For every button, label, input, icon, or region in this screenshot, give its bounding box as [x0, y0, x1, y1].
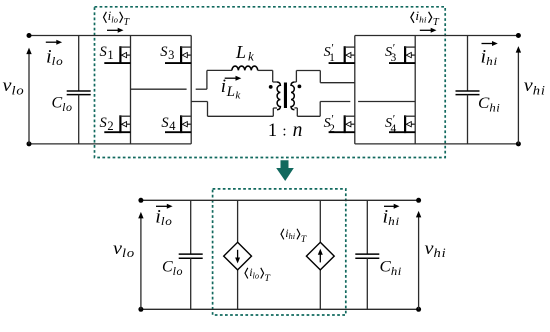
svg-text::: :	[282, 123, 286, 139]
label <ilo>T	[104, 9, 131, 28]
voltage arrow vhi	[516, 46, 521, 144]
transformer secondary polarity dot	[298, 85, 302, 89]
transformer core	[285, 83, 287, 109]
node dot bottom-left	[27, 141, 32, 146]
wire bottom rail averaged model	[141, 308, 419, 310]
wire leg S1-S2	[130, 36, 132, 144]
current arrow ilo	[46, 41, 58, 43]
dependent current source <ihi>T (diamond, up arrow)	[306, 242, 334, 270]
capacitor Chi averaged	[355, 200, 379, 309]
wire leg S3-S4	[190, 36, 192, 144]
capacitor Clo averaged	[179, 200, 203, 309]
current arrow ilo averaged	[156, 205, 168, 207]
node dot top-left averaged	[138, 198, 143, 203]
transformer secondary winding	[291, 82, 294, 110]
label <ihi>T	[411, 10, 440, 28]
svg-text:T: T	[301, 234, 307, 245]
node dot bottom-left averaged	[138, 307, 143, 312]
transistor S2	[104, 115, 130, 133]
transistor S2'	[329, 115, 355, 133]
current arrow iLk	[225, 77, 237, 79]
wire secondary bottom to node B-prime (with crossover gap)	[294, 102, 415, 117]
arrow <ilo>T	[107, 29, 119, 31]
voltage arrow vlo averaged	[138, 212, 143, 309]
wire bottom rail right bridge	[355, 143, 519, 145]
node dot bottom-right averaged	[416, 307, 421, 312]
wire top rail right bridge	[355, 35, 519, 37]
transformer primary winding	[277, 82, 280, 110]
wire to dependent source ihi	[319, 200, 321, 309]
current arrow ihi averaged	[384, 205, 395, 207]
transistor S4'	[389, 115, 415, 133]
wire bottom rail left bridge	[29, 143, 191, 145]
inductor Lk	[232, 66, 258, 70]
wire node B to bottom lead	[191, 102, 277, 117]
label <ilo>T averaged	[245, 265, 270, 284]
dependent current source <ilo>T (diamond, down arrow)	[224, 242, 252, 270]
wire leg S1p-S2p	[354, 36, 356, 144]
transistor S4	[165, 115, 191, 133]
current arrow ihi	[482, 43, 494, 45]
capacitor Chi	[456, 36, 480, 144]
wire node A to riser (with crossover gap)	[131, 70, 207, 89]
node dot top-left	[27, 33, 32, 38]
wire to dependent source ilo	[237, 200, 239, 309]
node dot top-right	[516, 33, 521, 38]
svg-text:T: T	[264, 273, 270, 284]
node dot top-right averaged	[416, 198, 421, 203]
wire node A top lead	[207, 69, 232, 71]
transformer primary polarity dot	[269, 85, 273, 89]
capacitor Clo	[67, 36, 91, 144]
wire top rail left bridge	[29, 35, 191, 37]
svg-text:n: n	[293, 120, 303, 141]
dashed averaging boundary box (top converter)	[95, 7, 446, 158]
voltage arrow vhi averaged	[416, 211, 421, 309]
wire Lk to transformer	[258, 70, 277, 82]
voltage arrow vlo	[26, 48, 31, 144]
arrow <ihi>T	[420, 29, 432, 31]
wire top rail averaged model	[141, 199, 419, 201]
node dot bottom-right	[516, 141, 521, 146]
transistor S1	[104, 46, 130, 64]
wire leg S3p-S4p	[414, 36, 416, 144]
wire secondary top to node A-prime	[294, 71, 354, 83]
transistor S3	[165, 46, 191, 64]
svg-text:1: 1	[268, 121, 277, 141]
teal down arrow (averaging transformation)	[276, 160, 294, 181]
transistor S3'	[389, 46, 415, 64]
transistor S1'	[329, 46, 355, 64]
label <ihi>T averaged	[281, 226, 307, 245]
dashed averaging boundary box (bottom model)	[213, 189, 346, 315]
